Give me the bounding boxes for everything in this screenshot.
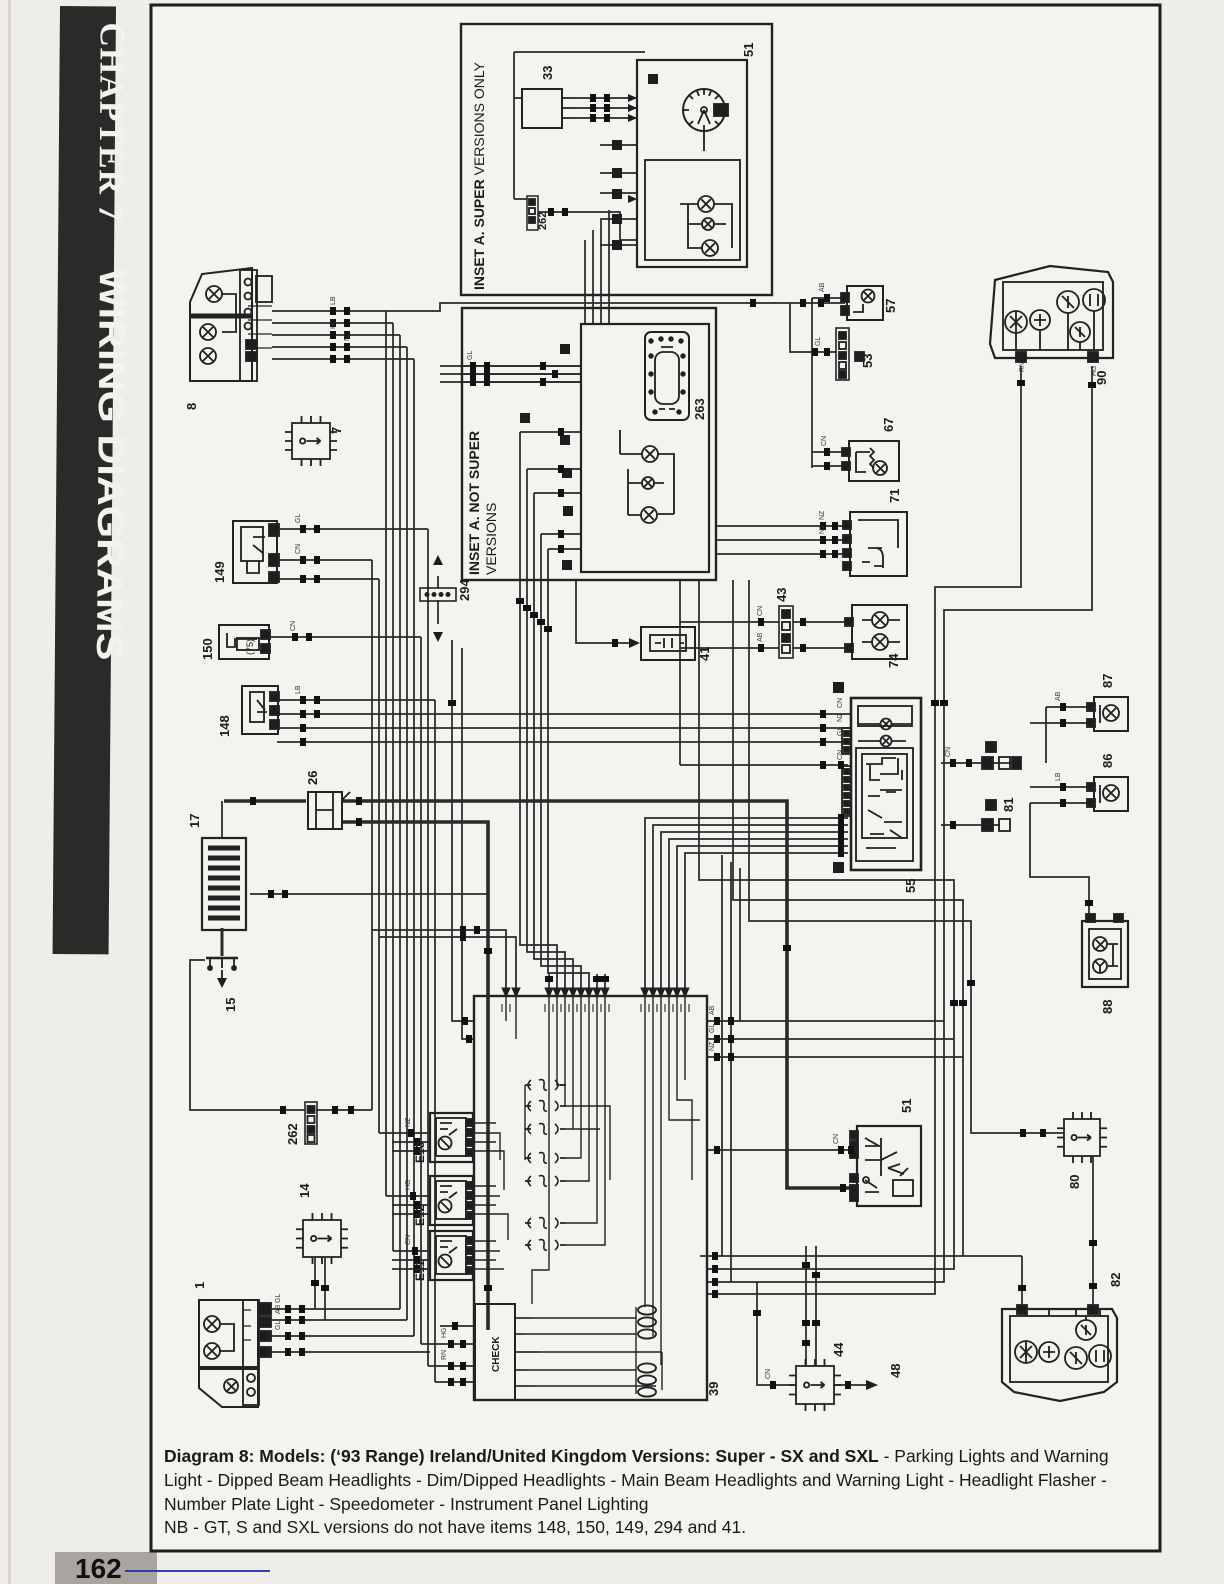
fusebox 17 <box>202 838 246 930</box>
wire 74-feed1a <box>680 621 779 623</box>
wire 15-riser <box>221 928 224 956</box>
wire 90-drop-left <box>707 366 1021 1294</box>
wire 262-left <box>190 960 305 1110</box>
svg-text:48: 48 <box>888 1364 903 1378</box>
wire 150-w <box>269 636 421 638</box>
svg-text:CN: CN <box>765 1369 772 1379</box>
wire 55-feed-x677 <box>677 846 848 993</box>
svg-text:150: 150 <box>200 638 215 660</box>
svg-text:NZ: NZ <box>709 1041 716 1051</box>
svg-text:NZ: NZ <box>837 712 844 722</box>
wire inset cluster stubs <box>600 145 637 245</box>
connector E11 <box>430 1231 473 1280</box>
wire bundleA-x393 <box>392 323 394 1251</box>
rear light unit 82 <box>1002 1305 1117 1401</box>
wire insetB-down-x527 <box>527 469 565 993</box>
wire 44-left <box>757 1282 794 1385</box>
switch 71 <box>843 512 907 576</box>
node inset pin (612,240) <box>612 240 622 250</box>
node inset pin (612,168) <box>612 168 622 178</box>
wire E12-feed3 <box>392 1213 430 1215</box>
wire inset 262 out <box>538 212 637 240</box>
wire insetB-down-x541 <box>541 534 581 993</box>
sidebar black bar <box>53 6 135 955</box>
wire E11-feed3 <box>392 1268 430 1270</box>
wire 87-riser <box>1045 707 1047 763</box>
wire rv-731 <box>730 862 732 1282</box>
svg-text:LB: LB <box>1055 772 1062 781</box>
svg-text:26: 26 <box>305 771 320 785</box>
wire insetB-h-y432 <box>520 431 581 433</box>
wire 39-left-feed2 <box>462 648 474 1039</box>
wire 149-w1 <box>277 528 428 530</box>
svg-text:8: 8 <box>184 403 199 410</box>
wire 39-left-feed1 <box>452 640 474 1021</box>
wire inset bulb links <box>680 204 732 248</box>
svg-text:33: 33 <box>540 66 555 80</box>
headlight unit 8 <box>190 268 272 381</box>
svg-text:CN: CN <box>837 698 844 708</box>
svg-text:INSET A. SUPER VERSIONS ONLY: INSET A. SUPER VERSIONS ONLY <box>471 61 487 290</box>
wire 55-feed-x645 <box>645 818 848 993</box>
wire 87-feed1 <box>1046 706 1094 708</box>
svg-text:81: 81 <box>1001 798 1016 812</box>
wire 8-out-3 <box>272 346 407 348</box>
connector 80-chip (chip style) <box>1057 1112 1107 1163</box>
wire 41-feed <box>576 580 635 643</box>
wire insetB triple inner <box>462 366 581 382</box>
node inset pin (648,74) <box>648 74 658 84</box>
svg-text:GL: GL <box>709 1024 716 1033</box>
node insetB pin (563,506) <box>563 506 573 516</box>
wire 44-top1 <box>805 1246 807 1366</box>
svg-text:AB: AB <box>819 282 826 292</box>
wire check-feed2 <box>428 1365 473 1367</box>
svg-text:CN: CN <box>833 1134 840 1144</box>
relay 26 <box>308 792 350 829</box>
svg-text:NB - GT, S and SXL versions do: NB - GT, S and SXL versions do not have … <box>164 1517 746 1537</box>
wire check-feed0 <box>440 1325 473 1327</box>
svg-text:HG: HG <box>330 319 337 330</box>
inset A frame <box>461 24 772 295</box>
CAPTION <box>164 1446 1109 1537</box>
node inset pin (612,189) <box>612 189 622 199</box>
instrument panel 263 <box>645 332 689 420</box>
svg-text:39: 39 <box>706 1382 721 1396</box>
node connector marks <box>250 94 1097 1389</box>
wire 39 internal runs <box>474 997 700 1394</box>
wire 90-drop-right <box>707 366 1092 1282</box>
svg-text:NZ: NZ <box>405 1117 412 1127</box>
svg-text:262: 262 <box>285 1123 300 1145</box>
wire insetB-h-y534 <box>541 533 581 535</box>
wire inset gap verticals <box>585 210 609 324</box>
node insetB pin (562,468) <box>562 468 572 478</box>
svg-text:GL: GL <box>467 351 474 360</box>
svg-text:44: 44 <box>831 1342 846 1357</box>
svg-text:67: 67 <box>881 418 896 432</box>
svg-text:57: 57 <box>883 299 898 313</box>
wire 14-drop1 <box>314 1258 316 1309</box>
svg-text:41: 41 <box>697 647 712 661</box>
svg-text:NZ: NZ <box>819 524 826 534</box>
lamp unit 74 <box>845 605 907 659</box>
svg-text:AB: AB <box>1055 691 1062 701</box>
wire 81-dash1 <box>941 762 1017 764</box>
wire 55-feed-x653 <box>653 825 848 993</box>
lamp ovals in 39 <box>638 1305 656 1396</box>
lamp inset-b3 <box>702 240 718 256</box>
wire 149-w2 <box>277 559 372 561</box>
wire 71-feed-540 <box>716 539 843 541</box>
wire bundleA-x372 <box>371 560 373 1110</box>
lamp inset-b2 <box>702 218 714 230</box>
wire 74-feed2a <box>680 647 779 649</box>
wire 26-right-thick <box>343 801 855 1188</box>
wire 39-pin-x549 <box>548 974 550 993</box>
wire 44-top2 <box>815 1246 817 1366</box>
svg-text:CN: CN <box>405 1235 412 1245</box>
wire bundleA-x421 <box>420 637 422 1344</box>
wire rv-733 <box>733 580 963 1256</box>
wire 39-pin-feed-1 <box>372 930 506 988</box>
svg-text:CHAPTER 7: CHAPTER 7 <box>91 22 132 222</box>
svg-text:INSET A. NOT SUPER: INSET A. NOT SUPER <box>466 431 482 575</box>
wire 55-feed-x661 <box>661 832 848 993</box>
wire bundleA-x379 <box>378 579 380 1133</box>
svg-text:294: 294 <box>457 579 472 601</box>
svg-text:(75): (75) <box>245 639 255 655</box>
wire 148-w2 <box>277 713 850 715</box>
wire insetB-h-y493 <box>534 492 581 494</box>
wire insetB-down-x520 <box>520 432 557 993</box>
svg-text:Number Plate Light - Speedomet: Number Plate Light - Speedometer - Instr… <box>164 1494 648 1514</box>
wire fuse stubs <box>525 1085 566 1245</box>
wire insetB-down-x548 <box>548 549 589 993</box>
scan page edge <box>8 0 11 1584</box>
wire 81-dash2 <box>941 824 1000 826</box>
wire y1256-run <box>700 1255 1022 1257</box>
wire 55-feed-x685 <box>685 853 848 993</box>
wire 148-w4 <box>277 741 850 743</box>
svg-text:88: 88 <box>1100 1000 1115 1014</box>
connector 294 <box>420 555 456 642</box>
wire 44-arrow <box>835 1384 866 1386</box>
wire 88-link <box>1030 803 1089 921</box>
svg-text:71: 71 <box>887 489 902 503</box>
wire 680-riser <box>679 580 681 765</box>
wire E11-feed <box>393 1250 430 1252</box>
svg-text:HG: HG <box>405 1180 412 1191</box>
wire 39-out-1039 <box>707 1038 954 1040</box>
svg-text:CN: CN <box>290 621 297 631</box>
svg-text:53: 53 <box>860 354 875 368</box>
wire 51-feed <box>707 1149 855 1151</box>
lamp insetB-b3 <box>641 507 657 523</box>
wire 1-w2 <box>264 1319 407 1321</box>
unit 41 <box>629 627 695 660</box>
wire 14-drop2 <box>324 1258 326 1320</box>
switch 150 <box>219 625 270 659</box>
wire 39-pin-x605 <box>604 974 606 993</box>
lamp unit 86 <box>1087 777 1128 811</box>
svg-text:GL: GL <box>295 514 302 523</box>
connector 14-chip (chip style) <box>296 1213 348 1264</box>
lamp unit 88 <box>1082 914 1128 987</box>
wire E12-feed <box>386 1195 430 1197</box>
wire 1-w3 <box>264 1335 414 1337</box>
connector 43 <box>779 606 793 658</box>
wire 1-w4 <box>264 1351 430 1353</box>
svg-text:15: 15 <box>223 998 238 1012</box>
wire E13-feed2 <box>392 1141 430 1143</box>
svg-text:51: 51 <box>741 43 756 57</box>
svg-text:CN: CN <box>945 747 952 757</box>
wire 39-pin-x597 <box>596 974 598 993</box>
light switch 55 <box>833 682 921 873</box>
svg-text:GL: GL <box>815 337 822 346</box>
node insetB pin (562,560) <box>562 560 572 570</box>
connector 262 <box>305 1102 317 1144</box>
node inset pin (612,214) <box>612 214 622 224</box>
wire 8-out-1 <box>272 322 393 324</box>
node insetB pin (560,435) <box>560 435 570 445</box>
wire bundleA-x386 <box>385 311 387 1196</box>
connector E13 <box>430 1113 473 1162</box>
svg-text:55: 55 <box>903 879 918 893</box>
switch 148 <box>242 686 279 734</box>
svg-text:NZ: NZ <box>344 331 351 341</box>
wire E13-feed3 <box>392 1150 430 1152</box>
svg-text:LB: LB <box>295 685 302 694</box>
connector 7-chip (chip style) <box>285 416 337 466</box>
svg-text:HG: HG <box>441 1328 448 1339</box>
svg-text:262: 262 <box>537 212 549 230</box>
wire 53-feed <box>790 303 836 352</box>
instrument cluster inset B <box>581 324 709 572</box>
wire 82-riser-left <box>1021 1256 1023 1309</box>
wire bundleA-x407 <box>406 347 408 1320</box>
wire 8-out-2 <box>272 334 400 336</box>
svg-text:GL: GL <box>275 1321 282 1330</box>
svg-text:LB: LB <box>330 296 337 305</box>
svg-text:CN: CN <box>821 436 828 446</box>
wire 71-feed-526 <box>716 525 843 527</box>
wire 149-w3 <box>277 578 379 580</box>
svg-text:82: 82 <box>1108 1273 1123 1287</box>
wire inset 33 links <box>514 98 637 199</box>
wire 262-right <box>316 1109 372 1111</box>
node inset pin (612,140) <box>612 140 622 150</box>
headlight unit 1 <box>199 1300 271 1407</box>
wire E12-feed2 <box>392 1204 430 1206</box>
wire check-feed1 <box>421 1343 473 1345</box>
connector 262 inset <box>527 196 538 230</box>
wire 74-feed2b <box>793 647 850 649</box>
wire rv-740 <box>739 868 741 1021</box>
lamp unit 67 <box>842 441 899 481</box>
svg-text:14: 14 <box>297 1183 312 1198</box>
switch 149 <box>233 521 279 583</box>
svg-text:148: 148 <box>217 715 232 737</box>
wire 39-pin-feed-2 <box>379 937 516 988</box>
svg-text:51: 51 <box>899 1099 914 1113</box>
lamp insetB-b2 <box>642 477 654 489</box>
wire rv-699 <box>699 580 954 1269</box>
svg-text:149: 149 <box>212 561 227 583</box>
unit 33 inset <box>522 89 578 128</box>
wire insetB bulb links <box>620 430 674 515</box>
svg-text:VERSIONS: VERSIONS <box>483 503 499 575</box>
svg-text:86: 86 <box>1100 754 1115 768</box>
inset B frame <box>462 308 716 580</box>
wire 80-down <box>1092 1156 1094 1309</box>
node insetB pin (560,344) <box>560 344 570 354</box>
wire 67-feed2 <box>812 465 847 467</box>
wire E11-feed2 <box>392 1259 430 1261</box>
svg-text:80: 80 <box>1067 1175 1082 1189</box>
wire insetB-h-y469 <box>527 468 581 470</box>
node inset arrowheads <box>628 94 637 203</box>
svg-text:CHECK: CHECK <box>491 1336 502 1372</box>
wire 8-out-0 <box>272 303 845 311</box>
svg-text:17: 17 <box>187 814 202 828</box>
connector 81 <box>982 742 1021 831</box>
svg-text:7: 7 <box>329 427 344 434</box>
svg-text:E11: E11 <box>413 1260 427 1281</box>
svg-text:Diagram 8: Models: (‘93 Range): Diagram 8: Models: (‘93 Range) Ireland/U… <box>164 1446 1109 1466</box>
wire 55-feed-x669 <box>669 839 848 993</box>
wire 87-feed2 <box>1030 722 1094 724</box>
wire insetB-in-374 <box>440 373 581 375</box>
svg-text:87: 87 <box>1100 674 1115 688</box>
instrument panel unit 39 <box>474 996 707 1400</box>
wire insetB-down-x534 <box>534 493 573 993</box>
instrument cluster 51 inset <box>637 60 747 267</box>
wire 39-out-1057 <box>707 1056 963 1058</box>
lamp unit 57 <box>841 286 883 320</box>
fuse row in 39 <box>528 1080 558 1251</box>
wire bundleA-x414 <box>413 359 415 1336</box>
wire 55-feed-765 <box>680 764 848 766</box>
lamp insetB-b1 <box>642 446 658 462</box>
wire mid-run-894 <box>250 893 488 895</box>
connector 44-chip (chip style) <box>789 1359 841 1411</box>
wire 57-riser <box>811 298 813 468</box>
wire 8-out-4 <box>272 358 414 360</box>
wire 86-feed2 <box>1030 802 1094 804</box>
svg-text:WIRING DIAGRAMS: WIRING DIAGRAMS <box>89 268 133 660</box>
wire bundleA-x435 <box>434 700 436 1382</box>
wire 86-feed1 <box>1030 786 1094 788</box>
svg-text:HG: HG <box>1091 366 1098 377</box>
svg-text:AB: AB <box>275 1304 282 1314</box>
svg-text:Light - Dipped Beam Headlights: Light - Dipped Beam Headlights - Dim/Dip… <box>164 1470 1107 1490</box>
svg-text:E13: E13 <box>413 1141 427 1163</box>
wire inset loop <box>514 52 645 199</box>
svg-text:RN: RN <box>1019 362 1026 372</box>
svg-text:CN: CN <box>757 606 764 616</box>
wire bundleA-x428 <box>427 529 429 1366</box>
wire 294-up <box>437 576 439 588</box>
wire 39-out-1021 <box>707 1020 944 1022</box>
svg-text:NZ: NZ <box>819 510 826 520</box>
wire E13-feed <box>379 1132 430 1134</box>
wire rv-722 <box>721 855 723 1256</box>
lamp unit 87 <box>1087 697 1128 731</box>
svg-text:GL: GL <box>275 1294 282 1303</box>
connector 53 <box>836 328 864 380</box>
wire check-feed3 <box>435 1381 473 1383</box>
wire 148-w1 <box>277 699 435 701</box>
lamp inset-b1 <box>698 196 714 212</box>
wire insetB-in-382 <box>440 381 581 383</box>
svg-text:162: 162 <box>75 1553 122 1584</box>
svg-text:AB: AB <box>709 1005 716 1015</box>
node insetB pin (520,413) <box>520 413 530 423</box>
svg-text:RN: RN <box>441 1350 448 1360</box>
relay 51 <box>850 1126 921 1206</box>
wire 26-left-thick <box>224 799 306 803</box>
page number block <box>55 1552 157 1584</box>
svg-text:74: 74 <box>886 653 901 668</box>
svg-text:263: 263 <box>692 398 707 420</box>
svg-text:CN: CN <box>837 750 844 760</box>
check unit <box>475 1304 539 1400</box>
wire insetB-in-366 <box>440 365 581 367</box>
node 39 top pin row <box>502 988 689 997</box>
wire 67-feed1 <box>812 451 847 453</box>
ground 15 <box>206 958 238 988</box>
wire 148-w3 <box>277 727 850 729</box>
svg-text:CN: CN <box>295 544 302 554</box>
svg-text:AB: AB <box>757 632 764 642</box>
wire rv-749 <box>749 580 1064 1133</box>
blue rule <box>125 1570 270 1572</box>
svg-text:GL: GL <box>837 727 844 736</box>
wire 57-riser2 <box>811 298 813 303</box>
rear light unit 90 <box>990 266 1113 362</box>
connector E12 <box>430 1176 473 1225</box>
wire insetB-h-y549 <box>548 548 581 550</box>
wire bundleA-x400 <box>399 335 401 1309</box>
wire 1-w1 <box>264 1308 400 1310</box>
wire 17-riser <box>221 801 223 838</box>
svg-text:E12: E12 <box>413 1204 427 1226</box>
wire 57-feed1 <box>812 297 845 299</box>
node 48 arrowhead <box>866 1380 878 1390</box>
svg-text:1: 1 <box>192 1282 207 1289</box>
wire 26-down-thick <box>343 822 488 1330</box>
wire 294-down <box>437 600 439 624</box>
wire 74-feed1b <box>793 621 850 623</box>
wire 71-feed-554 <box>716 553 843 555</box>
svg-text:43: 43 <box>774 588 789 602</box>
